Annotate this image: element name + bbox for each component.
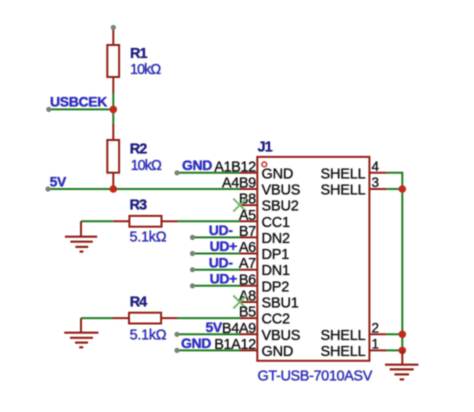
wire UD- row5 (193, 236, 241, 238)
svg-text:5.1kΩ: 5.1kΩ (130, 230, 167, 246)
pin stub A7 (240, 269, 257, 271)
pin stub A5 (240, 220, 257, 222)
pin stub B5 (240, 317, 257, 319)
svg-text:1: 1 (372, 336, 380, 351)
svg-text:B4A9: B4A9 (222, 321, 256, 337)
ground symbol right (385, 350, 418, 379)
UD- row7 open end dot (190, 267, 195, 272)
svg-text:SHELL: SHELL (321, 344, 366, 360)
svg-text:3: 3 (372, 175, 380, 190)
svg-text:R3: R3 (130, 198, 147, 214)
svg-text:5.1kΩ: 5.1kΩ (130, 328, 167, 344)
wire R3 left to ground (81, 220, 113, 222)
junction USBCEK node (110, 106, 118, 114)
UD+ row6 open end dot (190, 251, 195, 256)
resistor R1 (107, 28, 119, 93)
svg-text:CC2: CC2 (262, 312, 291, 328)
pin stub SHELL 3 (369, 188, 386, 190)
no-connect X at B8 (233, 199, 246, 212)
svg-text:UD+: UD+ (210, 238, 238, 254)
svg-text:DN2: DN2 (262, 231, 291, 247)
wire R4 right to CC2 pin (177, 317, 240, 319)
5V bottom open end dot (174, 332, 179, 337)
wire UD- row7 (193, 269, 241, 271)
pin stub SHELL 1 (369, 349, 386, 351)
svg-text:A1B12: A1B12 (214, 159, 256, 175)
wire GND to pin A1B12 (177, 172, 240, 174)
svg-text:GND: GND (262, 166, 294, 182)
svg-text:SBU2: SBU2 (262, 199, 299, 215)
wire right bus vertical (401, 172, 403, 351)
5V open end dot (45, 186, 50, 191)
svg-text:5V: 5V (206, 319, 223, 335)
wire UD+ row6 (193, 253, 241, 255)
pin stub B7 (240, 236, 257, 238)
svg-text:B6: B6 (239, 272, 256, 288)
svg-text:DP1: DP1 (262, 247, 290, 263)
svg-text:GND: GND (182, 157, 212, 173)
junction pin1 node (399, 347, 407, 355)
wire GND to pin B1A12 (177, 349, 240, 351)
svg-text:GND: GND (181, 335, 211, 351)
ground symbol left top (65, 221, 97, 251)
GND wire open end dot (174, 170, 179, 175)
svg-text:DN1: DN1 (262, 263, 291, 279)
wire pin1 to right bus (386, 349, 402, 351)
pin stub B8 (240, 204, 257, 206)
wire pin2 to right bus (386, 333, 402, 335)
resistor R4 (113, 313, 178, 324)
svg-text:A5: A5 (239, 208, 256, 224)
svg-text:SHELL: SHELL (321, 183, 366, 199)
svg-text:CC1: CC1 (262, 215, 291, 231)
svg-text:R1: R1 (130, 46, 147, 62)
svg-text:UD-: UD- (209, 254, 234, 270)
svg-text:10kΩ: 10kΩ (131, 158, 162, 174)
pin stub A8 (240, 301, 257, 303)
svg-text:UD+: UD+ (210, 271, 238, 287)
svg-text:SHELL: SHELL (321, 328, 366, 344)
ground symbol left bottom (64, 318, 98, 347)
wire USBCEK horizontal (49, 108, 114, 110)
svg-text:A6: A6 (239, 240, 256, 256)
svg-text:A7: A7 (239, 256, 256, 272)
no-connect X at A8 (233, 296, 246, 309)
svg-text:DP2: DP2 (262, 279, 290, 295)
pin stub B6 (240, 285, 257, 287)
svg-text:GT-USB-7010ASV: GT-USB-7010ASV (258, 369, 373, 385)
svg-text:GND: GND (262, 344, 294, 360)
pin stub A6 (240, 253, 257, 255)
wire 5V to pin B4A9 (177, 333, 240, 335)
svg-text:B8: B8 (239, 192, 256, 208)
wire pin3 to right bus (386, 188, 402, 190)
svg-text:SHELL: SHELL (321, 166, 366, 182)
wire pin4 to right bus (386, 172, 402, 174)
svg-text:10kΩ: 10kΩ (130, 62, 161, 78)
wire 5V horizontal (48, 188, 240, 190)
wire R1 to R2 vertical (112, 93, 114, 124)
svg-text:VBUS: VBUS (262, 183, 301, 199)
svg-text:A4B9: A4B9 (222, 176, 256, 192)
wire UD+ row8 (193, 285, 241, 287)
svg-text:USBCEK: USBCEK (50, 94, 107, 110)
svg-text:SBU1: SBU1 (262, 296, 299, 312)
pin stub A1B12 (240, 172, 257, 174)
svg-text:5V: 5V (50, 173, 67, 189)
svg-text:J1: J1 (258, 140, 273, 156)
svg-text:B7: B7 (239, 224, 256, 240)
pin stub B1A12 (240, 349, 257, 351)
wire R4 left to ground (81, 317, 113, 319)
svg-text:A8: A8 (239, 289, 256, 305)
svg-text:R4: R4 (130, 295, 147, 311)
svg-text:4: 4 (372, 159, 380, 174)
junction 5V node (110, 185, 118, 193)
resistor R2 (107, 124, 119, 189)
wire R3 right to CC1 pin (178, 220, 241, 222)
pin stub B4A9 (240, 333, 257, 335)
resistor R3 (113, 216, 177, 227)
pin stub A4B9 (240, 188, 257, 190)
pin stub SHELL 4 (369, 172, 386, 174)
GND bottom open end dot (174, 348, 179, 353)
USBCEK open end dot (46, 107, 51, 112)
svg-text:B5: B5 (239, 305, 256, 321)
connector J1 body (257, 157, 369, 361)
svg-text:R2: R2 (130, 142, 147, 158)
UD+ row8 open end dot (190, 283, 195, 288)
R1 pin-1 open end dot (111, 25, 116, 30)
junction pin3 node (399, 185, 407, 193)
svg-text:VBUS: VBUS (262, 328, 301, 344)
svg-text:UD-: UD- (209, 222, 234, 238)
UD- row5 open end dot (190, 235, 195, 240)
svg-text:2: 2 (372, 320, 380, 335)
pin stub SHELL 2 (369, 333, 386, 335)
svg-text:B1A12: B1A12 (214, 337, 256, 353)
junction pin2 node (399, 331, 407, 339)
J1 origin circle (262, 162, 267, 167)
